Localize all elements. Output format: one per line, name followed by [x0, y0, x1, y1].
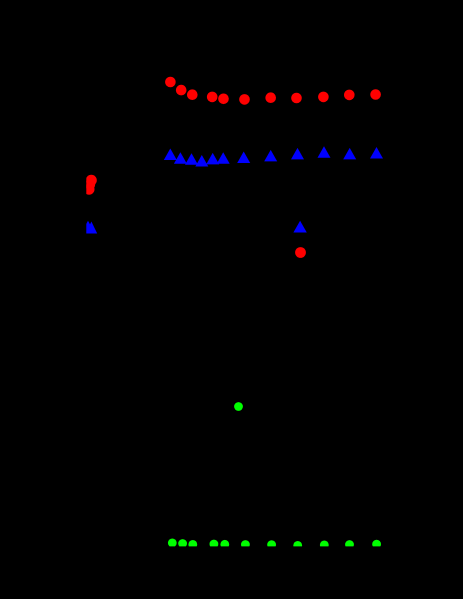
blue point 1 [164, 149, 177, 161]
red circle series (top row) [165, 77, 381, 105]
red point 8 [291, 93, 302, 104]
red point 4 [207, 92, 218, 103]
red point 1 [165, 77, 176, 88]
green point 6 [241, 540, 250, 549]
blue triangle series (second row) [164, 146, 383, 166]
green point 5 [220, 540, 229, 549]
green point 9 [320, 541, 329, 550]
middle red circle [295, 247, 306, 258]
blue point 8 [264, 150, 277, 162]
red point 11 [370, 89, 381, 100]
red point 3 [187, 89, 198, 100]
green point 11 [372, 540, 381, 549]
middle blue triangle [293, 221, 306, 233]
green point 8 [293, 541, 302, 550]
green point 7 [267, 540, 276, 549]
red point 7 [265, 92, 276, 103]
left-edge blue pair (clipped by axis) [82, 221, 98, 234]
red point 9 [318, 92, 329, 103]
blue point 5 [206, 153, 219, 165]
blue point 9 [291, 148, 304, 160]
red point 5 [218, 94, 229, 105]
red edge point a [86, 175, 97, 186]
green circle series (bottom row, clipped at axis line) [168, 539, 381, 550]
blue point 12 [370, 147, 383, 159]
red edge point b [84, 184, 95, 195]
green point 10 [345, 540, 354, 549]
left-edge red pair (clipped by axis) [84, 175, 97, 195]
blue edge point a [82, 221, 95, 233]
blue point 6 [217, 152, 230, 164]
blue point 2 [174, 152, 187, 164]
green point 3 [188, 540, 197, 549]
lone green point [234, 402, 243, 411]
red point 2 [176, 85, 187, 96]
red point 10 [344, 90, 355, 101]
red edge overlap fill [85, 179, 96, 190]
blue point 7 [237, 152, 250, 164]
green point 2 [178, 539, 187, 548]
blue point 10 [318, 146, 331, 158]
green point 4 [210, 540, 219, 549]
blue point 3 [185, 153, 198, 165]
green point 1 [168, 539, 177, 548]
blue point 4 [195, 155, 208, 167]
red point 6 [239, 94, 250, 105]
blue edge point b [86, 222, 98, 234]
blue point 11 [343, 148, 356, 160]
